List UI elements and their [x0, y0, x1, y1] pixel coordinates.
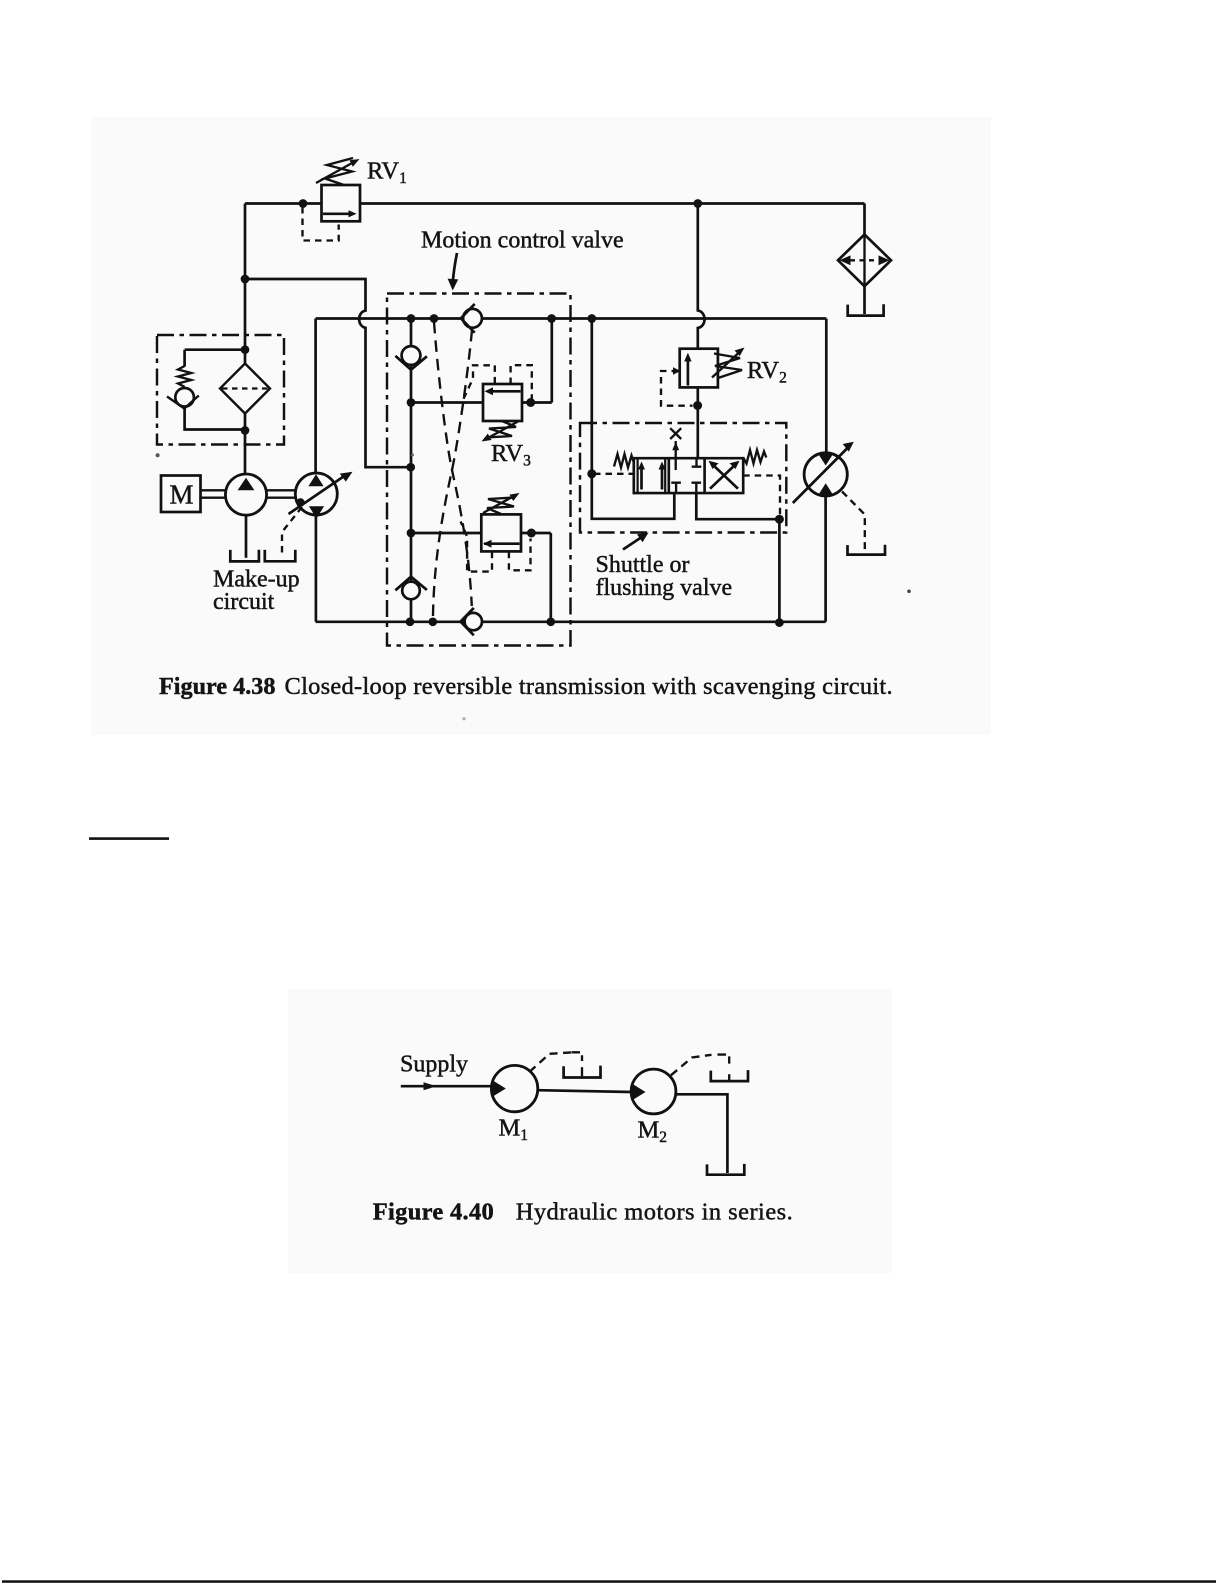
node: junctions on top bus	[407, 314, 416, 323]
pilot (dashed) lower RV3 right	[509, 539, 531, 571]
node: junction at RV1 inlet	[299, 199, 308, 208]
svg-text:flushing valve: flushing valve	[596, 575, 733, 601]
pilot (dashed) RV2	[661, 367, 693, 405]
svg-text:M: M	[170, 480, 194, 510]
short rule	[89, 837, 169, 840]
case drain (dashed) of motor	[842, 492, 865, 553]
svg-text:Hydraulic motors in series.: Hydraulic motors in series.	[516, 1199, 794, 1226]
tank under charge pump	[230, 550, 259, 562]
wire: supply line into RV1	[245, 202, 322, 205]
wire: filter bottom to pump inlet	[244, 414, 247, 475]
crossed pilot line A (dashed)	[434, 322, 472, 606]
speck	[907, 590, 911, 594]
svg-text:Supply: Supply	[400, 1052, 468, 1078]
valve left spring	[614, 454, 634, 468]
node: case drain tap	[296, 498, 304, 506]
node: junction left riser	[241, 275, 250, 284]
charge pump	[225, 474, 266, 515]
bottom rule	[2, 1580, 1216, 1583]
directional valve body	[634, 458, 743, 493]
tank for motor case drain	[848, 545, 886, 555]
case drain (dashed) of M2	[671, 1055, 712, 1075]
wire: charge pump drain to tank	[245, 515, 248, 558]
wire: to upper RV3	[411, 401, 483, 404]
svg-text:Closed-loop reversible transmi: Closed-loop reversible transmission with…	[285, 673, 893, 700]
check valve upper central	[395, 346, 427, 370]
check valve lower central	[395, 577, 427, 600]
wire: M2 outlet down to tank	[676, 1094, 728, 1173]
make-up relief valve spring	[178, 366, 191, 387]
pilot (dashed) lower RV3 left	[461, 522, 492, 572]
relief valve RV2 body	[680, 349, 718, 388]
wire: drop into cooler	[863, 204, 866, 236]
variable displacement motor	[793, 442, 854, 503]
drain corner (dashed) of M2	[718, 1055, 730, 1064]
wire: make-up riser	[244, 279, 247, 364]
node: junction left pilot	[587, 469, 596, 478]
wire: shuttle centre-bottom port to drop	[696, 493, 779, 622]
wire: bottom bus up to motor	[824, 496, 827, 622]
valve centre cell blocked ports	[671, 441, 701, 493]
wire: cooler to tank	[863, 286, 866, 314]
wire: left riser from RV1 line	[244, 204, 247, 280]
check valve on top bus	[461, 304, 482, 333]
speck	[411, 453, 414, 456]
wire: upper RV3 outlet up to top bus	[522, 319, 552, 403]
relief valve RV2 spring	[712, 348, 745, 379]
relief valve RV1 body	[322, 185, 361, 221]
pilot (dashed) shuttle left	[594, 473, 633, 475]
node: junction at upper RV3 outlet	[526, 398, 535, 407]
svg-text:Figure 4.40: Figure 4.40	[373, 1199, 494, 1226]
svg-text:Figure 4.38: Figure 4.38	[159, 673, 275, 700]
filter (make-up)	[220, 364, 270, 414]
tank below cooler	[848, 304, 884, 315]
tank at M2 outlet	[707, 1164, 744, 1175]
valve left cell flow arrows	[638, 462, 666, 490]
leader arrow to shuttle valve	[623, 533, 649, 550]
make-up relief valve ball	[167, 388, 199, 409]
case drain (dashed) of M1	[530, 1052, 572, 1071]
wire: left loop vertical (top)	[314, 319, 317, 474]
node: junction filter bottom	[241, 426, 250, 435]
drain pipe into tank M2	[728, 1074, 730, 1080]
hydraulic motor M1	[491, 1065, 537, 1111]
pilot line (dashed) of RV1	[303, 207, 339, 241]
case drain (dashed) of variable pump	[282, 507, 302, 557]
pilot (dashed) upper RV3 left	[464, 365, 495, 399]
node: junction right pilot	[775, 515, 784, 524]
drain corner (dashed) of M1	[572, 1052, 583, 1061]
wire: make-up relief outlet	[185, 407, 244, 430]
scan background panel figure 4.40	[288, 989, 892, 1273]
scan background panel figure 4.38	[91, 117, 991, 735]
wire: left loop vertical (bottom)	[315, 515, 318, 622]
pilot (dashed) upper RV3 right	[511, 365, 532, 401]
check valve on bottom bus	[461, 608, 482, 635]
drain pipe into tank M1	[581, 1067, 583, 1076]
relief valve RV3 lower body	[481, 514, 521, 551]
relief valve RV3 lower spring	[483, 493, 520, 514]
wire: branch to motion control valve (with hop over main wire)	[245, 279, 411, 467]
node: junctions on bottom bus	[406, 617, 415, 626]
wire: RV1 outlet to cooler	[360, 202, 865, 205]
relief valve RV3 upper spring	[482, 421, 519, 442]
pilot (dashed) shuttle right	[743, 476, 780, 516]
shaft M to pump	[201, 490, 226, 497]
variable displacement pump	[289, 472, 353, 519]
shuttle / flushing valve enclosure (dash-dot)	[580, 423, 786, 533]
electric motor M	[161, 476, 201, 513]
cooler (heat exchanger)	[838, 235, 891, 287]
speck	[462, 717, 465, 720]
wire: to lower RV3	[411, 532, 481, 535]
make-up relief valve branch wire	[185, 350, 244, 367]
hydraulic motor M2	[631, 1069, 676, 1114]
wire: top bus drop to shuttle bottom-left port	[592, 319, 675, 519]
wire: RV2 down to shuttle valve	[696, 387, 699, 458]
valve right spring	[743, 450, 766, 464]
make-up circuit enclosure (dash-dot)	[157, 335, 284, 445]
wire: top bus down to motor	[825, 319, 828, 454]
wire: M1 to M2	[538, 1090, 632, 1092]
node: junction top-right riser	[693, 199, 702, 208]
wire: MCV central vertical	[410, 319, 413, 622]
drain line with plug (x) above valve	[670, 428, 681, 439]
svg-text:Motion control valve: Motion control valve	[421, 228, 624, 254]
wire: lower RV3 outlet down to bottom bus	[521, 533, 551, 622]
speck	[156, 453, 160, 457]
node: junction filter top	[241, 345, 250, 354]
wire: MCV top bus	[316, 317, 827, 320]
node: junction under RV2	[693, 401, 702, 410]
svg-text:circuit: circuit	[213, 589, 275, 615]
tank for case drain	[265, 550, 296, 562]
valve right cell crossed arrows	[709, 461, 740, 489]
node: junction at lower RV3 outlet	[527, 529, 536, 538]
relief valve RV1 adjustable spring	[316, 158, 360, 185]
leader arrow to motion control valve	[448, 253, 459, 291]
wire: supply line	[401, 1082, 492, 1090]
motion control valve enclosure (dash-dot)	[387, 294, 571, 646]
node: junctions on central vertical	[407, 398, 416, 407]
wire: riser to RV2 (with hop over MCV top bus)	[698, 204, 705, 349]
wire: MCV bottom bus	[316, 620, 826, 623]
relief valve RV3 upper body	[483, 384, 522, 421]
shaft pump to pump	[267, 490, 296, 497]
tank for M2 drain	[711, 1070, 748, 1081]
crossed pilot line B (dashed)	[433, 330, 472, 616]
tank for M1 drain	[564, 1066, 601, 1078]
